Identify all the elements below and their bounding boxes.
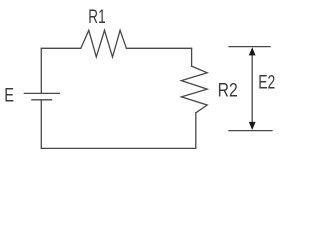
resistor R1 xyxy=(81,30,127,57)
svg-text:R2: R2 xyxy=(218,80,238,102)
wire left lower vertical xyxy=(40,100,42,149)
wire left upper vertical xyxy=(40,48,42,93)
wire bottom horizontal xyxy=(41,147,196,149)
E2 bottom reference bar xyxy=(229,130,272,132)
wire right upper vertical xyxy=(191,48,193,66)
wire top-right horizontal xyxy=(126,47,191,49)
wire top-left horizontal xyxy=(41,47,81,49)
svg-text:E2: E2 xyxy=(258,71,275,93)
E2 arrow shaft xyxy=(251,53,253,124)
wire right lower vertical xyxy=(195,113,197,149)
battery E long plate xyxy=(24,92,59,94)
resistor R2 xyxy=(181,66,207,113)
svg-text:R1: R1 xyxy=(88,7,105,28)
E2 arrowhead up xyxy=(249,47,256,55)
E2 top reference bar xyxy=(229,46,270,48)
svg-text:E: E xyxy=(4,85,14,106)
E2 arrowhead down xyxy=(249,122,256,130)
battery E short plate xyxy=(32,99,52,101)
